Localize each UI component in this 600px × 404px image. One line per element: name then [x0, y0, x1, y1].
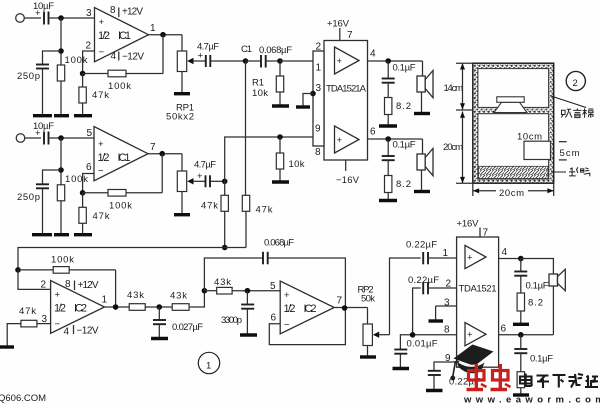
- dim 14cm: [444, 63, 473, 110]
- port tube: [524, 141, 551, 159]
- svg-text:7: 7: [150, 142, 156, 153]
- svg-text:IC1: IC1: [118, 152, 131, 164]
- capacitor 250p ch2: [17, 184, 49, 233]
- svg-text:14cm: 14cm: [444, 83, 464, 94]
- svg-text:+: +: [284, 290, 290, 301]
- svg-text:3: 3: [444, 298, 450, 309]
- svg-text:47k: 47k: [201, 201, 218, 212]
- svg-text:50kx2: 50kx2: [166, 112, 194, 123]
- svg-text:+: +: [337, 135, 343, 146]
- wire fb down ch2: [161, 154, 163, 193]
- label RP1 50kx2: [166, 103, 194, 123]
- capacitor 3300p: [221, 291, 254, 334]
- node OUT4: [385, 58, 391, 64]
- resistor 10k ch2: [276, 137, 304, 181]
- capacitor 0.1uF zobel2: [382, 139, 416, 176]
- pin4 -12V: [111, 51, 145, 63]
- svg-text:IC1: IC1: [118, 30, 131, 42]
- resistor 100k input ch1: [57, 55, 87, 115]
- wire pin4 output: [368, 60, 423, 62]
- svg-text:+: +: [55, 290, 61, 301]
- ground 10k ch2: [272, 180, 289, 183]
- wire output pin7: [148, 153, 182, 155]
- amplifier U2 TDA1521A body: [313, 41, 368, 161]
- ground 3300p: [240, 333, 257, 336]
- U4 amp triangle B: [465, 323, 486, 346]
- op-amp U1B 1/2 IC1: [94, 127, 148, 181]
- svg-text:+: +: [197, 171, 203, 182]
- svg-text:250p: 250p: [17, 71, 40, 82]
- enclosure damping band: [473, 63, 554, 183]
- node A1: [58, 15, 64, 21]
- svg-text:7: 7: [483, 228, 489, 239]
- wire C1 node down to 47k summing: [245, 61, 247, 195]
- svg-text:2: 2: [446, 279, 452, 290]
- svg-text:9: 9: [445, 353, 451, 364]
- node OUTW: [342, 305, 348, 311]
- wire to RP1a: [181, 35, 183, 51]
- watermark graduation cap: [450, 345, 493, 381]
- resistor 43k no3: [204, 277, 280, 294]
- amplifier U4 TDA1521 body: [457, 237, 499, 367]
- wire node M2 up to pin9 line: [225, 137, 280, 181]
- pin 7 +16V stub: [327, 19, 353, 42]
- wire node A1 down: [60, 18, 62, 65]
- svg-text:www.eaworm.com: www.eaworm.com: [463, 395, 600, 404]
- svg-text:47k: 47k: [256, 205, 273, 216]
- svg-text:4.7µF: 4.7µF: [197, 42, 219, 53]
- svg-text:4: 4: [502, 247, 508, 258]
- svg-text:4.7µF: 4.7µF: [194, 160, 216, 171]
- pin8 +12V: [110, 5, 143, 18]
- svg-text:43k: 43k: [170, 291, 187, 302]
- capacitor 0.068uF ch1: [246, 45, 293, 68]
- svg-text:2: 2: [86, 41, 92, 52]
- svg-text:5: 5: [87, 128, 93, 139]
- node N8: [410, 332, 416, 338]
- svg-text:3: 3: [316, 83, 322, 94]
- svg-text:+: +: [98, 139, 104, 150]
- svg-text:8.2: 8.2: [396, 179, 411, 190]
- svg-text:0.01µF: 0.01µF: [407, 339, 438, 350]
- svg-text:10cm: 10cm: [517, 132, 542, 143]
- wire node A3 down: [60, 138, 62, 185]
- node A2: [58, 48, 64, 54]
- SPEAKER BOX DRAWING: [443, 63, 593, 199]
- svg-text:+16V: +16V: [457, 219, 480, 230]
- capacitor 0.22uF no2: [408, 275, 457, 335]
- node F3: [245, 288, 251, 294]
- svg-text:7: 7: [347, 30, 353, 41]
- capacitor 0.027uF: [153, 307, 203, 337]
- node F0: [113, 304, 119, 310]
- node OUT6: [385, 136, 391, 142]
- callout circled 2: [566, 71, 585, 90]
- svg-text:−: −: [99, 47, 105, 58]
- wire pin2 to fb node: [83, 51, 95, 74]
- svg-text:47k: 47k: [19, 306, 36, 317]
- svg-text:1: 1: [206, 361, 211, 372]
- resistor 47k fb ch2: [79, 193, 110, 234]
- pin4 -12V IC2A: [64, 325, 99, 338]
- resistor 8.2 zobel2: [385, 176, 412, 200]
- input terminal J1: [16, 14, 41, 23]
- svg-text:2: 2: [41, 280, 47, 291]
- svg-text:0.027µF: 0.027µF: [172, 322, 203, 333]
- wire to pin1 TDA1521A: [280, 60, 313, 62]
- dim 20cm horizontal: [473, 183, 554, 199]
- wire output IC2B: [334, 307, 367, 309]
- capacitor 0.068uF feedback: [204, 238, 345, 309]
- resistor R1 10k: [252, 61, 284, 105]
- svg-text:TDA1521: TDA1521: [459, 284, 497, 295]
- svg-text:4: 4: [370, 49, 376, 60]
- svg-text:1/2: 1/2: [284, 303, 296, 315]
- ground SP1: [414, 112, 430, 115]
- ground 100k ch2: [54, 233, 69, 236]
- label fine sand (CJK): [551, 167, 590, 176]
- svg-text:10µF: 10µF: [33, 121, 54, 132]
- svg-text:0.1µF: 0.1µF: [530, 354, 553, 365]
- svg-text:1: 1: [443, 248, 449, 259]
- potentiometer RP2 50k: [358, 285, 390, 356]
- svg-text:6: 6: [86, 162, 92, 173]
- watermark bug char 2: [491, 364, 511, 390]
- ground RP1b: [174, 213, 190, 216]
- ground 0.027uF: [151, 337, 168, 340]
- resistor 8.2 zobel3: [517, 293, 543, 323]
- svg-text:+: +: [99, 17, 105, 28]
- node SUM: [222, 245, 228, 251]
- svg-text:20cm: 20cm: [443, 142, 463, 153]
- ground RP1a: [174, 92, 190, 95]
- label 5cm + ticks: [559, 142, 580, 160]
- ground 47k IC2A: [0, 345, 14, 348]
- svg-text:Q606.COM: Q606.COM: [0, 393, 46, 404]
- resistor 100k feedback ch2: [83, 190, 163, 212]
- wire pin6 output: [368, 138, 423, 140]
- svg-text:0.1µF: 0.1µF: [393, 63, 416, 74]
- enclosure lower chamber: [478, 114, 549, 179]
- woofer in box: [494, 97, 527, 113]
- watermark bug char 1: [467, 364, 487, 390]
- svg-text:−12V: −12V: [122, 52, 144, 63]
- svg-text:−: −: [284, 320, 290, 331]
- pin8 +12V IC2A: [65, 279, 99, 291]
- svg-text:100k: 100k: [65, 174, 88, 185]
- ground 100k ch1: [54, 114, 69, 117]
- wire to RP2: [367, 308, 369, 325]
- node IN3: [15, 267, 21, 273]
- capacitor 0.01uF: [394, 339, 437, 368]
- circled 1 callout: [198, 352, 219, 373]
- wire pin6 to fb node ch2: [83, 174, 94, 193]
- wire pin6 output U4: [499, 324, 554, 335]
- wire node to pin2: [18, 270, 51, 290]
- svg-text:1: 1: [102, 295, 108, 306]
- watermark site name CJK dianzi xiazaizhan: [520, 374, 598, 389]
- resistor 47k sum B: [242, 195, 272, 247]
- svg-text:+: +: [467, 330, 473, 341]
- svg-text:9: 9: [315, 124, 321, 135]
- svg-text:43k: 43k: [214, 277, 231, 288]
- dim 20cm vertical: [443, 112, 473, 184]
- svg-text:0.068µF: 0.068µF: [264, 238, 294, 249]
- wire pin6 follower loop: [269, 308, 345, 344]
- input terminal J2: [16, 134, 41, 143]
- svg-text:8: 8: [444, 325, 450, 336]
- ground 47k ch2: [74, 233, 92, 236]
- svg-text:47k: 47k: [93, 211, 110, 222]
- speaker SP2: [417, 139, 433, 190]
- svg-text:6: 6: [370, 127, 376, 138]
- wire pin4 output U4: [499, 247, 521, 259]
- svg-text:100k: 100k: [51, 255, 74, 266]
- svg-text:0.1µF: 0.1µF: [526, 281, 549, 292]
- wire output pin1: [149, 34, 183, 36]
- capacitor 0.1uF zobel3: [514, 259, 548, 294]
- pin 5 -16V stub: [336, 160, 360, 186]
- svg-text:1: 1: [150, 23, 156, 34]
- wire input to pin5: [49, 137, 95, 139]
- svg-text:−: −: [98, 166, 104, 177]
- svg-text:47k: 47k: [92, 90, 109, 101]
- capacitor 10uF C(in2): [33, 121, 54, 145]
- capacitor 0.1uF zobel1: [382, 61, 416, 98]
- resistor 43k no1: [127, 290, 172, 310]
- resistor 43k no2: [170, 291, 204, 311]
- CH1 SECTION: [16, 1, 313, 195]
- wire to RP1b: [181, 154, 183, 171]
- svg-text:C1: C1: [241, 44, 252, 55]
- label absorbing cotton (CJK): [551, 96, 593, 118]
- pin 3 ground: [296, 91, 316, 107]
- svg-text:4: 4: [64, 327, 70, 338]
- wire input to pin3: [49, 17, 95, 19]
- ground RP2: [360, 355, 376, 358]
- svg-text:4: 4: [111, 51, 117, 62]
- svg-text:0.1µF: 0.1µF: [393, 140, 416, 151]
- capacitor 0.1uF no4: [514, 335, 553, 372]
- svg-text:2: 2: [316, 42, 322, 53]
- svg-text:+12V: +12V: [122, 7, 143, 18]
- enclosure outer wall: [473, 63, 554, 183]
- svg-text:10k: 10k: [289, 159, 305, 170]
- ground 250p ch1: [33, 114, 52, 117]
- svg-text:−12V: −12V: [77, 326, 99, 337]
- ground zobel2: [379, 199, 397, 202]
- ground 47k ch1: [74, 114, 92, 117]
- node O6: [518, 332, 524, 338]
- svg-text:+: +: [337, 56, 343, 67]
- WATERMARKS: [0, 345, 600, 404]
- svg-text:0.068µF: 0.068µF: [259, 45, 292, 56]
- svg-text:−: −: [55, 319, 61, 330]
- node M2: [222, 179, 228, 185]
- TDA1521A SECTION: [280, 19, 433, 201]
- svg-text:1/2: 1/2: [54, 303, 66, 315]
- op-amp U3A 1/2 IC2: [51, 281, 105, 334]
- node A3: [58, 135, 64, 141]
- svg-text:6: 6: [271, 313, 277, 324]
- svg-text:250p: 250p: [17, 192, 40, 203]
- svg-text:8.2: 8.2: [396, 101, 411, 112]
- op-amp U3B 1/2 IC2: [280, 281, 334, 334]
- pin 7 +16V stub U4: [457, 219, 489, 239]
- ground no4: [513, 393, 529, 396]
- ground zobel1: [379, 124, 397, 127]
- svg-text:R1: R1: [252, 78, 264, 89]
- wire RP2 wiper riser: [390, 258, 421, 335]
- pin 9 wire U4: [434, 353, 457, 371]
- svg-text:50k: 50k: [361, 294, 375, 305]
- svg-text:1: 1: [316, 63, 322, 74]
- ground 0.22uF no3: [426, 389, 443, 392]
- IC2 SUBWOOFER SECTION: [0, 238, 390, 374]
- U2 amp triangle A: [335, 47, 360, 74]
- wire sum join: [225, 247, 246, 249]
- svg-text:8: 8: [315, 147, 321, 158]
- svg-text:+16V: +16V: [327, 19, 350, 30]
- wire to 250p ch2: [43, 170, 62, 184]
- node C1: [241, 44, 252, 64]
- speaker SP3 bridged: [549, 269, 565, 335]
- op-amp U1A 1/2 IC1: [95, 8, 149, 62]
- svg-text:3: 3: [86, 8, 92, 19]
- svg-text:5: 5: [270, 281, 276, 292]
- svg-text:10µF: 10µF: [33, 1, 54, 12]
- capacitor 4.7uF ch2: [194, 160, 225, 188]
- resistor 8.2 no4: [517, 372, 524, 394]
- svg-text:0.22µF: 0.22µF: [406, 240, 437, 251]
- node O4: [518, 256, 524, 262]
- potentiometer RP1 gang A: [177, 51, 206, 92]
- enclosure upper chamber: [478, 69, 549, 108]
- node FB2: [80, 190, 86, 196]
- svg-text:20cm: 20cm: [499, 188, 524, 199]
- resistor 100k feedback ch1: [83, 70, 163, 92]
- svg-text:−16V: −16V: [336, 175, 360, 186]
- resistor 100k input ch2: [57, 174, 88, 234]
- capacitor 0.22uF no3: [428, 371, 480, 389]
- svg-text:8: 8: [110, 5, 116, 16]
- capacitor 4.7uF ch1: [197, 42, 246, 68]
- svg-text:100k: 100k: [65, 55, 88, 66]
- capacitor 10uF C(in1): [33, 1, 54, 25]
- node F1: [157, 304, 163, 310]
- node FB1: [80, 71, 86, 77]
- svg-text:3300p: 3300p: [221, 315, 242, 326]
- potentiometer RP1 gang B: [177, 171, 205, 213]
- svg-text:43k: 43k: [127, 290, 144, 301]
- wire sum to IC2: [18, 248, 225, 270]
- svg-text:7: 7: [337, 296, 343, 307]
- resistor 100k feedback IC2A: [18, 255, 116, 308]
- pin3 input 47k: [7, 306, 50, 346]
- node P9: [277, 134, 283, 140]
- wire fb down: [162, 35, 164, 74]
- svg-text:8: 8: [65, 279, 71, 290]
- svg-text:5cm: 5cm: [560, 148, 580, 159]
- U4 amp triangle A: [465, 245, 486, 268]
- pin 3 ground U4: [429, 298, 457, 322]
- wire to 250p: [43, 51, 62, 65]
- node OUT1: [160, 32, 166, 38]
- svg-text:100k: 100k: [109, 201, 132, 212]
- ground 0.01uF: [393, 367, 410, 370]
- speaker SP1: [417, 61, 433, 112]
- U2 amp triangle B: [335, 126, 360, 153]
- wire output IC2A: [105, 306, 130, 308]
- svg-text:100k: 100k: [108, 81, 131, 92]
- svg-text:+: +: [467, 253, 473, 264]
- ground R1: [272, 104, 289, 107]
- svg-text:IC2: IC2: [304, 303, 317, 315]
- ground 250p ch2: [32, 233, 52, 236]
- svg-text:0.22µF: 0.22µF: [408, 275, 439, 286]
- resistor 8.2 zobel1: [385, 98, 412, 125]
- node A4: [58, 167, 64, 173]
- svg-text:1/2: 1/2: [98, 30, 110, 42]
- svg-text:1/2: 1/2: [98, 152, 110, 164]
- TDA1521 BTL SECTION: [390, 219, 566, 396]
- resistor 47k fb ch1: [79, 74, 109, 116]
- pin 8 wire U4: [400, 325, 456, 350]
- resistor 47k sum A: [201, 181, 228, 247]
- wire pin9 input: [280, 136, 313, 138]
- node B1: [277, 58, 283, 64]
- node OUT7: [159, 151, 165, 157]
- CH2 SECTION: [16, 121, 305, 270]
- svg-text:+12V: +12V: [78, 280, 99, 291]
- ground SP2: [414, 190, 430, 193]
- sand layer: [479, 166, 549, 178]
- svg-text:3: 3: [42, 314, 48, 325]
- svg-text:TDA1521A: TDA1521A: [326, 84, 367, 95]
- svg-text:8.2: 8.2: [528, 298, 543, 309]
- node F2: [202, 288, 208, 294]
- ground zobel3: [513, 323, 529, 326]
- capacitor 0.22uF no1: [406, 240, 457, 265]
- svg-text:6: 6: [501, 324, 507, 335]
- svg-text:IC2: IC2: [74, 303, 87, 315]
- capacitor 250p ch1: [17, 65, 49, 116]
- wire to bridge speaker top: [521, 259, 554, 275]
- svg-text:10k: 10k: [252, 88, 268, 99]
- svg-text:2: 2: [573, 78, 578, 89]
